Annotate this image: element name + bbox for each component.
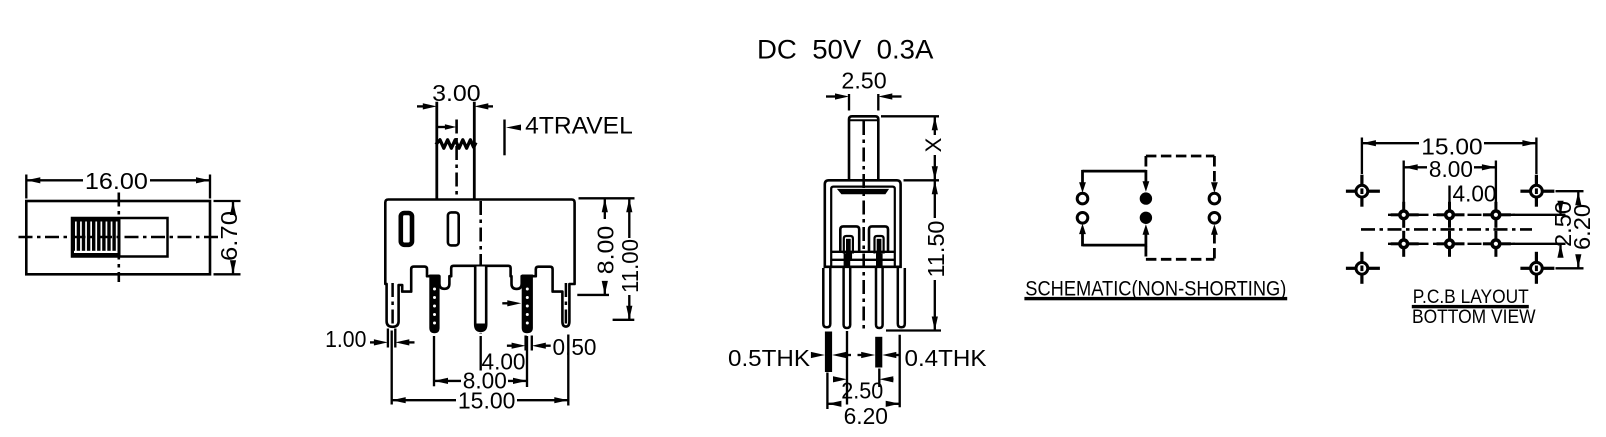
svg-text:0.50: 0.50 xyxy=(553,334,597,360)
front view: left slot (heavy) xyxy=(401,213,412,245)
dimension 0.4THK (terminal thickness) xyxy=(858,345,988,371)
side view: centerline xyxy=(862,121,865,330)
label P.C.B LAYOUT / BOTTOM VIEW xyxy=(1412,287,1536,328)
pcb layout: mounting hole bottom-left xyxy=(1346,252,1380,284)
side view: sectioned lead thickness bars xyxy=(825,332,882,373)
svg-text:6.20: 6.20 xyxy=(1569,204,1595,250)
annotation 4TRAVEL xyxy=(505,113,633,156)
front view: left tab centerline xyxy=(391,283,394,324)
schematic: dashed alternate-position bracket xyxy=(1146,156,1218,259)
dimension 15.00 (pcb mounting hole spacing) xyxy=(1362,134,1537,175)
svg-text:1.00: 1.00 xyxy=(325,326,366,352)
svg-text:16.00: 16.00 xyxy=(85,168,148,194)
schematic: terminal circles xyxy=(1077,192,1220,224)
dimension 8.00 (pin 1 to pin 3 spacing) xyxy=(434,336,527,393)
svg-text:3.00: 3.00 xyxy=(432,80,481,106)
svg-text:DC 50V 0.3A: DC 50V 0.3A xyxy=(757,35,933,65)
top view: actuator travel window xyxy=(72,218,168,257)
front view: shaft centerline xyxy=(455,120,458,199)
dimension 1.00 (mounting tab width) xyxy=(325,326,414,352)
svg-text:8.00: 8.00 xyxy=(1429,156,1473,182)
svg-text:P.C.B LAYOUT: P.C.B LAYOUT xyxy=(1413,287,1529,308)
front view: body vertical centerline xyxy=(479,201,482,334)
dimension 6.20 (pcb mounting row spacing) xyxy=(1556,191,1596,268)
front view: pin 1 (solid with plating dots) xyxy=(429,275,439,334)
pcb layout: pin hole row2 col1 xyxy=(1391,231,1419,257)
front view: pin 3 (solid with plating dots) xyxy=(522,275,533,334)
top view: vertical centerline xyxy=(118,193,121,283)
dimension 16.00 (top view width) xyxy=(26,168,210,199)
pcb layout: mounting hole top-right xyxy=(1520,175,1554,207)
side view: body outline xyxy=(825,180,901,266)
dimension 6.20 (bracket spacing) xyxy=(827,335,899,429)
svg-text:8.00: 8.00 xyxy=(593,226,619,275)
dimension X (shaft exposed height) xyxy=(881,116,946,180)
front view: travel direction arrow on shaft xyxy=(438,124,457,129)
front view: body outline with actuator shaft and mounting tabs xyxy=(385,102,574,327)
pcb layout: pin hole row1 col2 xyxy=(1437,202,1465,228)
svg-text:BOTTOM VIEW: BOTTOM VIEW xyxy=(1412,307,1536,328)
svg-text:11.50: 11.50 xyxy=(923,221,949,278)
dimension 8.00 (pcb pin spacing) xyxy=(1404,156,1496,208)
pcb layout: mounting hole top-left xyxy=(1346,175,1380,207)
svg-text:6.70: 6.70 xyxy=(216,211,242,261)
schematic: solid position bracket with arrows xyxy=(1079,170,1149,246)
pcb layout: row centerlines through pin holes xyxy=(1388,215,1515,244)
side view: base wafer lines xyxy=(831,252,895,266)
svg-text:0.5THK: 0.5THK xyxy=(728,345,811,371)
dimension 11.50 (body height) xyxy=(886,180,949,330)
side view: legs (brackets and terminals) xyxy=(823,268,905,328)
dimension 8.00 (front view body height) xyxy=(577,198,634,295)
top view: horizontal centerline xyxy=(19,236,221,239)
dimension 6.70 (top view height) xyxy=(214,201,243,274)
pcb layout: horizontal centerline xyxy=(1361,228,1532,231)
side view: internal contacts xyxy=(840,226,888,253)
svg-text:X: X xyxy=(921,137,946,152)
dimension 2.50 (pcb row spacing) xyxy=(1502,201,1576,258)
dimension 4.00 (pin 2 to pin 3 spacing) xyxy=(481,336,527,387)
dimension 0.50 (pin thickness) xyxy=(502,300,596,360)
pcb layout: pin hole row1 col3 xyxy=(1483,202,1511,228)
front view: right slot xyxy=(448,212,459,245)
pcb layout: pin hole row2 col2 xyxy=(1437,231,1465,257)
front view: right tab centerline xyxy=(565,283,568,324)
svg-text:15.00: 15.00 xyxy=(458,387,516,413)
dimension 11.00 (front view overall height) xyxy=(613,198,643,319)
svg-text:6.20: 6.20 xyxy=(844,403,888,429)
dimension 2.50 (shaft thickness) xyxy=(826,68,902,111)
dimension 0.5THK (bracket thickness) xyxy=(728,345,851,371)
dimension 2.50 (terminal spacing) xyxy=(833,331,894,405)
svg-text:0.4THK: 0.4THK xyxy=(905,345,988,371)
svg-text:2.50: 2.50 xyxy=(841,378,883,404)
dimension 4.00 (pcb pin spacing) xyxy=(1450,181,1497,209)
svg-text:11.00: 11.00 xyxy=(617,239,643,293)
pcb layout: pin hole row1 col1 xyxy=(1391,202,1419,228)
front view: shaft break zigzag xyxy=(436,140,476,148)
top view: knurled slider knob xyxy=(72,217,121,256)
pcb layout: mounting hole bottom-right xyxy=(1520,252,1554,284)
svg-text:4.00: 4.00 xyxy=(1453,181,1497,207)
label SCHEMATIC(NON-SHORTING) xyxy=(1024,278,1287,301)
side view: actuator shaft xyxy=(849,116,878,180)
pcb layout: pin hole row2 col3 xyxy=(1483,231,1511,257)
dimension 3.00 (shaft width) xyxy=(417,80,493,110)
svg-text:4TRAVEL: 4TRAVEL xyxy=(525,113,633,140)
dimension 15.00 (front view tab spacing) xyxy=(392,331,569,414)
front view: pin 2 (center, outlined) xyxy=(475,267,486,331)
top view: switch body outline 16.00 x 6.70 xyxy=(26,201,210,274)
svg-text:2.50: 2.50 xyxy=(841,68,886,94)
